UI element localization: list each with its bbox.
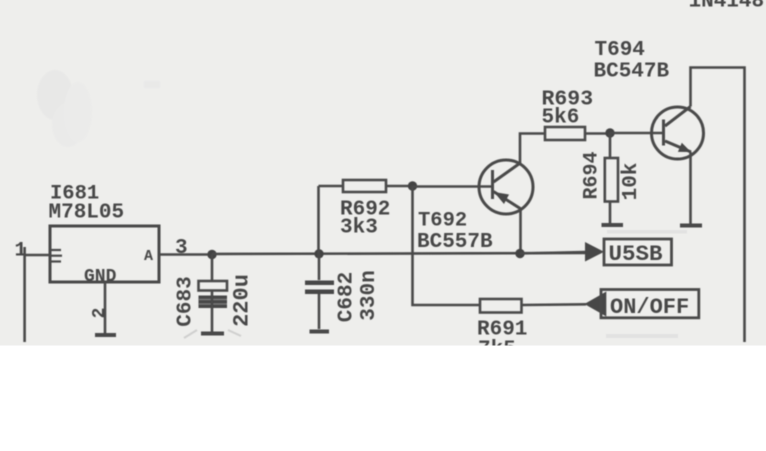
label C682 bbox=[336, 272, 359, 322]
label 1N4148 (clipped at top) bbox=[689, 0, 765, 14]
label GND inside box bbox=[84, 267, 117, 287]
svg-text:3k3: 3k3 bbox=[340, 217, 378, 240]
label 5k6 bbox=[542, 107, 580, 130]
svg-text:C682: C682 bbox=[336, 272, 359, 322]
label 330n bbox=[358, 270, 381, 320]
label I681 bbox=[50, 183, 99, 206]
node emitter rail junction bbox=[515, 249, 524, 258]
capacitor C682 bbox=[305, 254, 334, 329]
svg-text:M78L05: M78L05 bbox=[49, 202, 125, 225]
pin 2 wire bbox=[104, 282, 107, 333]
arrow ON/OFF bbox=[584, 292, 606, 317]
pin 3 wire bbox=[159, 253, 212, 256]
ground (R694) bbox=[602, 223, 624, 227]
svg-text:U5SB: U5SB bbox=[609, 241, 664, 267]
label T692 bbox=[418, 210, 467, 233]
wire T692 emitter down bbox=[519, 209, 522, 254]
label M78L05 bbox=[49, 202, 125, 225]
pin label A bbox=[144, 248, 153, 265]
svg-text:10k: 10k bbox=[620, 163, 643, 201]
port box ON/OFF bbox=[601, 290, 699, 318]
ground (T694 emitter) bbox=[680, 224, 702, 228]
svg-text:T694: T694 bbox=[595, 39, 645, 62]
arrow U5SB bbox=[585, 242, 604, 262]
svg-text:3: 3 bbox=[175, 237, 188, 260]
wire T694 emitter down bbox=[689, 152, 692, 224]
resistor R692 bbox=[319, 180, 413, 254]
svg-text:T692: T692 bbox=[418, 210, 467, 233]
wire left vertical bbox=[23, 247, 26, 342]
label 3k3 bbox=[340, 217, 378, 240]
label BC547B bbox=[594, 61, 670, 84]
ground (C683) bbox=[201, 332, 224, 336]
ground (C682) bbox=[310, 330, 330, 334]
node base T692 junction bbox=[408, 181, 417, 190]
svg-text:ON/OFF: ON/OFF bbox=[610, 295, 689, 320]
resistor R694 bbox=[605, 133, 618, 223]
svg-text:BC547B: BC547B bbox=[594, 61, 670, 84]
resistor R693 bbox=[545, 127, 610, 140]
wire base T692 bbox=[413, 185, 493, 188]
svg-text:BC557B: BC557B bbox=[417, 231, 493, 254]
node 5V junction bbox=[207, 250, 216, 259]
svg-text:5k6: 5k6 bbox=[542, 107, 580, 130]
label U5SB bbox=[609, 241, 664, 267]
pin 1 wire bbox=[25, 254, 50, 257]
svg-text:C683: C683 bbox=[175, 276, 198, 326]
scanned paper background bbox=[0, 0, 766, 346]
faint smudges bottom bbox=[184, 330, 241, 338]
wire base T694 bbox=[610, 132, 664, 135]
wire to U5SB bbox=[520, 252, 585, 254]
capacitor C683 electrolytic bbox=[199, 255, 228, 333]
wire main rail bbox=[212, 253, 585, 254]
label BC557B bbox=[417, 231, 493, 254]
svg-text:R694: R694 bbox=[581, 151, 604, 199]
node R693/R694/base junction bbox=[605, 128, 614, 137]
label R692 bbox=[340, 199, 390, 222]
label 7k5 (clipped at bottom) bbox=[478, 339, 516, 362]
label 10k bbox=[620, 163, 643, 201]
svg-text:GND: GND bbox=[84, 267, 117, 287]
transistor T692 bbox=[479, 160, 533, 214]
svg-text:7k5: 7k5 bbox=[478, 339, 516, 362]
svg-text:A: A bbox=[144, 248, 153, 265]
label R691 bbox=[477, 319, 527, 342]
pin label 2 bbox=[90, 308, 110, 319]
regulator I681 box bbox=[50, 226, 159, 282]
svg-text:1N4148: 1N4148 bbox=[689, 0, 765, 14]
svg-text:330n: 330n bbox=[358, 270, 381, 320]
ground (I681 pin 2) bbox=[95, 333, 116, 337]
label R694 bbox=[581, 151, 604, 199]
node C682 junction bbox=[314, 249, 323, 258]
wire T692 collector up bbox=[520, 134, 545, 164]
wire down to R691 bbox=[413, 186, 481, 305]
pin symbol E (input) bbox=[50, 250, 62, 262]
label C683 bbox=[175, 276, 198, 326]
wire T694 collector loop bbox=[691, 68, 745, 343]
faint scanner smudge top-left bbox=[37, 70, 160, 147]
pin label 1 bbox=[15, 240, 27, 263]
svg-text:2: 2 bbox=[90, 308, 110, 319]
svg-text:220u: 220u bbox=[230, 274, 255, 327]
pin label 3 bbox=[175, 237, 188, 260]
label ON/OFF bbox=[610, 295, 689, 320]
port box U5SB bbox=[604, 239, 672, 265]
label T694 bbox=[595, 39, 645, 62]
resistor R691 bbox=[480, 299, 586, 313]
label R693 bbox=[542, 88, 594, 112]
label 220u bbox=[230, 274, 255, 327]
transistor T694 bbox=[652, 107, 704, 160]
